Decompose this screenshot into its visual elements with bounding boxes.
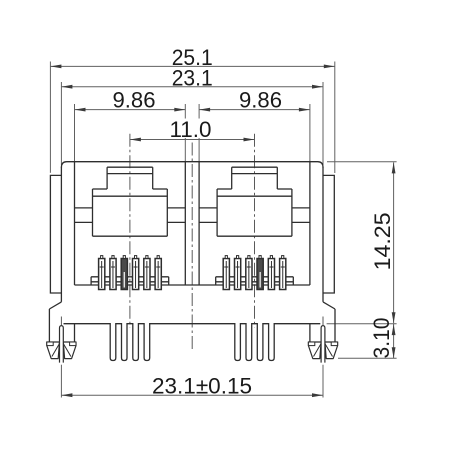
port1 solder leg 4 — [144, 323, 150, 361]
port2 solder leg 1 — [235, 323, 241, 361]
arrow 9.86L right — [174, 108, 185, 112]
ext line port2 left (9.86) — [198, 104, 200, 162]
port2 solder leg 3 — [257, 323, 263, 361]
port1 opening bottom — [93, 235, 168, 237]
port2 left wing — [199, 207, 217, 209]
centerline left foot — [60, 317, 62, 363]
port2 opening right — [291, 189, 293, 236]
arrow 3.10 bottom — [392, 347, 396, 358]
port2 contact pin 4 — [257, 259, 263, 290]
right flange — [323, 175, 334, 293]
svg-text:14.25: 14.25 — [370, 212, 395, 270]
ext line right body (23.1) — [322, 82, 324, 165]
arrow 23.1 right — [312, 85, 323, 89]
port2 solder leg 4 — [269, 323, 275, 361]
left foot center post — [60, 326, 64, 363]
arrow 11.0 right — [244, 138, 255, 142]
arrow bottom left — [61, 393, 72, 397]
port2 latch tab left — [231, 167, 233, 189]
centerline overall vertical — [191, 143, 193, 350]
port2 latch tab right — [276, 167, 278, 189]
svg-text:3.10: 3.10 — [369, 318, 394, 359]
svg-text:23.1: 23.1 — [172, 66, 213, 91]
port1 latch tab top — [107, 166, 153, 168]
arrow 25.1 right — [324, 65, 335, 69]
port1 contact pin 5 — [144, 259, 150, 290]
ext line port2 right (9.86) — [309, 104, 311, 162]
port2 opening ledge — [217, 195, 292, 197]
ext line top right (14.25) — [327, 161, 397, 163]
port1 contact pin 2 — [110, 259, 116, 290]
port2 latch tab inner line — [232, 173, 278, 175]
port2 latch tab top — [232, 166, 278, 168]
left foot inner prong — [74, 324, 76, 342]
ext line right flange (25.1) — [334, 62, 336, 174]
housing bottom edge — [64, 323, 321, 325]
port2 step left — [217, 188, 232, 190]
dim line 23.1±0.15 — [61, 394, 323, 396]
dim line 25.1 — [50, 65, 334, 67]
port1 latch tab right — [152, 167, 154, 189]
port1 solder leg 3 — [133, 323, 139, 361]
right foot center post — [321, 326, 325, 363]
housing top edge — [61, 162, 323, 168]
centerline right foot — [322, 317, 324, 363]
port2 contact pin 3 — [246, 259, 252, 290]
ext line left foot (bottom dim) — [60, 365, 62, 398]
left bottom chamfer — [49, 302, 61, 309]
port1 contact base strip — [91, 276, 169, 278]
front face bottom edge — [75, 284, 310, 286]
arrow 14.25 bottom — [392, 312, 396, 323]
port1 solder leg 1 — [110, 323, 116, 361]
arrow 9.86R left — [199, 108, 210, 112]
port2 opening left — [216, 189, 218, 236]
port1 left wing — [75, 207, 93, 209]
centerline port2 — [254, 134, 256, 328]
port2 contact pin 6 — [280, 259, 286, 290]
dim line 23.1 — [61, 86, 323, 88]
ext line foot bottom (3.10) — [338, 357, 397, 359]
dim line 14.25 — [393, 162, 395, 323]
left foot barb left wing — [47, 342, 60, 359]
svg-text:23.1±0.15: 23.1±0.15 — [152, 373, 252, 398]
port2 opening bottom — [217, 235, 292, 237]
svg-text:9.86: 9.86 — [239, 87, 282, 112]
ext line port1 right (9.86) — [184, 104, 186, 162]
port2 step right — [277, 188, 292, 190]
dim line 3.10 — [393, 324, 395, 359]
right foot barb left wing — [308, 342, 321, 359]
port2 contact pin 2 — [235, 259, 241, 290]
port2 right wing — [292, 207, 310, 209]
port1 step left — [93, 188, 108, 190]
port1 opening left — [92, 189, 94, 236]
svg-text:11.0: 11.0 — [170, 117, 212, 142]
housing right side — [322, 167, 324, 302]
halo for 11.0 label — [168, 119, 213, 139]
port1 right wing — [167, 207, 185, 209]
dim line 9.86 left — [75, 109, 186, 111]
port1 contact pin 4 — [133, 259, 139, 290]
port1 step right — [153, 188, 168, 190]
port1 opening ledge — [93, 195, 168, 197]
centerline port1 — [129, 134, 131, 328]
arrow 9.86L left — [75, 108, 86, 112]
port2 solder leg 2 — [246, 323, 252, 361]
port1 latch tab inner line — [107, 173, 153, 175]
ext line bottom right (3.10 top) — [327, 323, 397, 325]
ext line right foot (bottom dim) — [322, 365, 324, 398]
left flange — [50, 175, 61, 293]
port2 contact base strip — [216, 276, 294, 278]
port1 solder leg 2 — [122, 323, 128, 361]
port1 outline left — [74, 162, 76, 285]
port2 contact pin 5 — [268, 259, 274, 290]
port1 opening right — [166, 189, 168, 236]
ext line port1 left (9.86) — [74, 104, 76, 162]
arrow 9.86R right — [299, 108, 310, 112]
arrow 14.25 top — [392, 162, 396, 173]
right outer prong — [334, 309, 336, 342]
arrow bottom right — [312, 393, 323, 397]
ext line left flange (25.1) — [49, 62, 51, 173]
svg-text:9.86: 9.86 — [113, 87, 156, 112]
arrow 3.10 top — [392, 324, 396, 335]
port2 outline left — [198, 162, 200, 285]
port1 outline right — [184, 162, 186, 285]
dim line 11.0 — [130, 139, 255, 141]
port1 latch tab left — [106, 167, 108, 189]
dim line 9.86 right — [199, 109, 310, 111]
left outer prong — [48, 309, 50, 342]
right bottom chamfer — [323, 302, 335, 309]
port1 contact pin 1 — [99, 259, 105, 290]
port2 outline right — [309, 162, 311, 285]
arrow 23.1 left — [61, 85, 72, 89]
port1 contact pin 3 — [121, 259, 127, 290]
port1 contact pin 6 — [155, 259, 161, 290]
right foot inner prong — [309, 324, 311, 342]
ext line left body (23.1) — [60, 82, 62, 165]
housing left side — [60, 167, 62, 302]
right foot barb right wing — [325, 342, 338, 359]
left foot barb right wing — [63, 342, 76, 359]
arrow 11.0 left — [130, 138, 141, 142]
arrow 25.1 left — [50, 65, 61, 69]
port2 contact pin 1 — [223, 259, 229, 290]
